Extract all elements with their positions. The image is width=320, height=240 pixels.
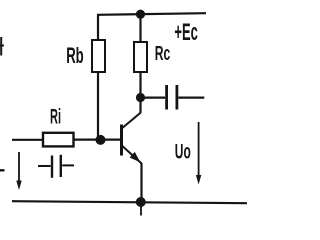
label Uo xyxy=(175,141,191,164)
wire stub below ground node xyxy=(140,203,142,216)
arrow input current (down) xyxy=(16,152,21,190)
wire Rc bottom to collector node xyxy=(139,72,141,98)
wire emitter down to ground rail xyxy=(140,163,142,202)
node base junction xyxy=(96,135,106,145)
svg-text:Rb: Rb xyxy=(66,43,84,68)
node ground junction xyxy=(136,197,146,207)
wire top supply rail xyxy=(97,13,206,15)
node collector junction xyxy=(136,93,145,102)
edge mark left (cut-off plus sign) xyxy=(0,37,4,56)
wire bottom ground rail xyxy=(12,201,247,203)
wire base node to transistor base xyxy=(101,139,121,141)
wire collector node down to transistor xyxy=(139,98,141,113)
label Rb xyxy=(66,43,84,68)
resistor Ri xyxy=(43,133,74,147)
wire rail to Rc top xyxy=(139,14,141,42)
wire input left xyxy=(12,139,43,141)
wire Ri to base node xyxy=(74,139,101,141)
svg-text:Uo: Uo xyxy=(175,141,191,164)
svg-text:Rc: Rc xyxy=(155,43,171,65)
node top-rail junction xyxy=(136,10,145,19)
resistor Rc xyxy=(134,42,147,72)
label Ri xyxy=(50,106,61,129)
resistor Rb xyxy=(92,40,105,72)
wire Rb bottom to base node xyxy=(97,72,99,140)
wire rail to Rb top xyxy=(97,15,99,40)
arrow output voltage Uo (down) xyxy=(196,122,201,185)
wire collector node to capacitor C2 xyxy=(144,96,165,98)
label +Ec xyxy=(174,19,198,46)
capacitor C2 (output coupling) xyxy=(167,85,177,110)
svg-text:+Ec: +Ec xyxy=(174,19,198,46)
wire C2 to output xyxy=(178,96,204,98)
svg-text:Ri: Ri xyxy=(50,106,61,129)
capacitor C1 (input, below Ri) xyxy=(38,155,74,178)
transistor Q1 (NPN) xyxy=(122,113,142,164)
label Rc xyxy=(155,43,171,65)
edge mark left middle (cut-off dash) xyxy=(0,169,5,171)
